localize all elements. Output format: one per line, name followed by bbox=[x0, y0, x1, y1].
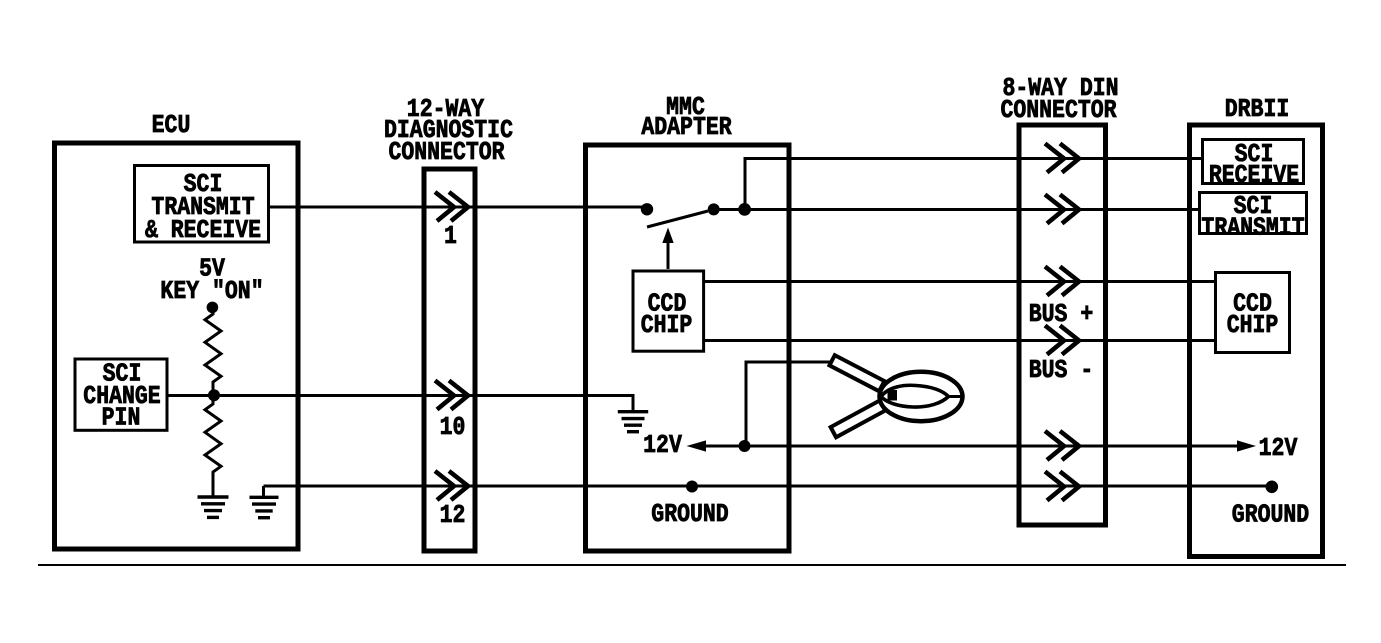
node SCI change pin junction bbox=[208, 389, 220, 401]
battery clamp upper jaw bbox=[829, 355, 884, 391]
svg-text:PIN: PIN bbox=[102, 404, 141, 433]
12-way diagnostic connector box bbox=[424, 169, 475, 551]
node switch throw dot bbox=[708, 203, 720, 215]
node DRBII ground dot bbox=[1266, 481, 1279, 494]
svg-text:12V: 12V bbox=[1259, 434, 1298, 463]
battery clamp handle loop bbox=[880, 372, 963, 421]
DRBII SCI receive box U4 bbox=[1203, 140, 1304, 184]
battery clamp lower jaw bbox=[831, 400, 886, 437]
DIN chevron row A bbox=[1045, 144, 1079, 173]
svg-text:GROUND: GROUND bbox=[651, 500, 728, 529]
DIN chevron row F bbox=[1045, 472, 1079, 501]
ground symbol MMC chassis bbox=[618, 412, 648, 432]
wire 5V dot to resistor R1 bbox=[212, 307, 215, 315]
switch actuator arrow bbox=[662, 228, 673, 270]
battery clamp loop opening bbox=[881, 385, 949, 407]
wire ECU ground2 riser bbox=[262, 486, 265, 497]
svg-text:CHIP: CHIP bbox=[1227, 311, 1279, 340]
node SCI receive branch dot bbox=[738, 203, 751, 216]
svg-text:1: 1 bbox=[444, 222, 457, 251]
svg-text:GROUND: GROUND bbox=[1232, 501, 1309, 530]
svg-text:CHIP: CHIP bbox=[641, 311, 693, 340]
switch blade S1 bbox=[647, 211, 708, 227]
arrow 12V DRBII right bbox=[1237, 440, 1256, 451]
svg-text:CONNECTOR: CONNECTOR bbox=[1000, 96, 1117, 125]
wire dot2 to SCI transmit box row B bbox=[713, 208, 1200, 211]
MMC adapter box bbox=[586, 145, 790, 551]
8-way DIN connector box bbox=[1019, 125, 1106, 525]
wire SCI receive row A bbox=[745, 159, 1201, 210]
svg-text:12: 12 bbox=[440, 501, 466, 530]
svg-text:ECU: ECU bbox=[152, 111, 191, 140]
DIN chevron row B bbox=[1045, 195, 1079, 224]
connector chevron pin 12 bbox=[435, 471, 468, 500]
wire SCI transmit row B left segment bbox=[269, 206, 648, 209]
ground symbol ECU G2 bbox=[250, 497, 279, 517]
DRBII box bbox=[1190, 125, 1323, 557]
ground symbol ECU G1 bbox=[198, 497, 229, 517]
svg-text:CONNECTOR: CONNECTOR bbox=[388, 138, 505, 167]
DIN chevron row E bbox=[1045, 431, 1079, 460]
battery clamp tail bbox=[948, 395, 963, 398]
svg-text:DRBII: DRBII bbox=[1225, 95, 1289, 124]
svg-text:12V: 12V bbox=[643, 431, 682, 460]
svg-text:& RECEIVE: & RECEIVE bbox=[145, 216, 261, 245]
node 12V clamp tap dot bbox=[739, 440, 751, 452]
resistor R1 bbox=[205, 314, 221, 395]
node switch pole dot bbox=[641, 203, 653, 215]
ECU box bbox=[55, 143, 299, 549]
wire CCD bus+ row C bbox=[704, 280, 1216, 283]
svg-text:BUS +: BUS + bbox=[1029, 300, 1093, 329]
connector chevron pin 10 bbox=[435, 381, 468, 410]
svg-text:RECEIVE: RECEIVE bbox=[1209, 161, 1299, 190]
arrow 12V MMC left bbox=[687, 440, 707, 451]
wire ground row F bbox=[264, 485, 1273, 488]
MMC CCD chip box U3 bbox=[633, 271, 704, 351]
wire SCI change pin row to MMC ground bbox=[167, 396, 633, 411]
svg-text:BUS -: BUS - bbox=[1029, 356, 1093, 385]
battery clamp pivot bbox=[888, 390, 898, 401]
svg-text:TRANSMIT: TRANSMIT bbox=[1201, 214, 1304, 243]
svg-text:KEY "ON": KEY "ON" bbox=[160, 277, 263, 306]
bottom rule bbox=[38, 564, 1346, 566]
SCI transmit-receive box U1 bbox=[135, 166, 269, 243]
node MMC ground dot bbox=[686, 481, 698, 493]
connector chevron pin 1 bbox=[435, 192, 468, 221]
wire clamp feed bbox=[746, 362, 834, 446]
wire 12V row E bbox=[706, 445, 1237, 448]
SCI change pin box U2 bbox=[75, 359, 167, 430]
wire CCD bus- row D bbox=[704, 339, 1216, 342]
DRBII SCI transmit box U5 bbox=[1200, 193, 1307, 234]
DIN chevron row D bbox=[1045, 326, 1079, 355]
DRBII CCD chip box U6 bbox=[1216, 273, 1290, 353]
svg-text:ADAPTER: ADAPTER bbox=[641, 113, 732, 142]
DIN chevron row C bbox=[1045, 267, 1079, 296]
resistor R2 bbox=[205, 395, 221, 497]
node 5V dot bbox=[207, 302, 219, 314]
svg-text:10: 10 bbox=[440, 413, 466, 442]
